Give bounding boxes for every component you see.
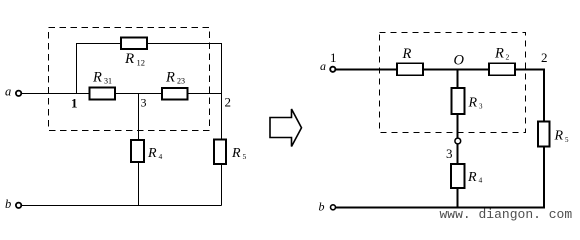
svg-text:2: 2 [541, 50, 548, 65]
svg-text:a: a [320, 59, 326, 73]
svg-text:3: 3 [479, 103, 483, 111]
svg-text:www. diangon. com: www. diangon. com [440, 207, 573, 222]
svg-text:b: b [5, 197, 11, 211]
svg-text:12: 12 [137, 58, 146, 68]
svg-text:b: b [319, 200, 325, 214]
svg-text:3: 3 [446, 146, 453, 161]
svg-text:4: 4 [479, 176, 483, 185]
svg-text:2: 2 [506, 53, 510, 62]
svg-text:4: 4 [159, 152, 163, 161]
svg-text:1: 1 [330, 50, 337, 65]
svg-text:R: R [554, 129, 564, 144]
svg-text:R: R [402, 46, 412, 62]
svg-text:a: a [5, 85, 11, 99]
svg-text:1: 1 [71, 96, 78, 111]
svg-text:5: 5 [243, 152, 247, 161]
svg-text:R: R [165, 70, 175, 86]
svg-text:R: R [231, 146, 241, 161]
svg-text:O: O [454, 53, 465, 69]
svg-text:R: R [468, 96, 478, 111]
svg-text:R: R [147, 146, 157, 161]
svg-text:5: 5 [565, 136, 569, 144]
svg-text:R: R [494, 46, 504, 62]
svg-text:3: 3 [141, 96, 147, 110]
svg-text:31: 31 [104, 77, 112, 86]
svg-text:R: R [467, 170, 477, 185]
svg-text:2: 2 [225, 95, 232, 110]
svg-text:23: 23 [177, 77, 185, 86]
svg-text:R: R [124, 51, 134, 67]
svg-text:R: R [92, 70, 102, 86]
